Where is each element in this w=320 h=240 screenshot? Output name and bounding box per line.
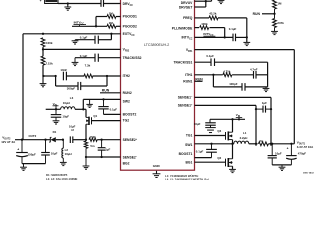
wire PGOOD1 left [96,16,107,18]
svg-text:470µF: 470µF [298,152,306,156]
label 10uF (VOUT2) [51,151,58,155]
label 3.3V AT 10A [297,145,314,149]
node junction VOUT2 rail [21,139,23,141]
resistor 5m (sense, vertical) [84,140,87,157]
svg-text:1M: 1M [277,1,282,5]
node junction boost cap top [102,98,104,100]
wire BG1 to gate [195,161,226,163]
svg-text:SENSE1−: SENSE1− [178,96,193,100]
svg-text:1M: 1M [109,11,114,15]
svg-text:3.3V AT 10A: 3.3V AT 10A [297,145,314,149]
label 7.15k [46,61,54,65]
inductor L2 (vertical) [62,140,63,158]
svg-text:L4, L5: 74438999012 WÜRTH (2x): L4, L5: 74438999012 WÜRTH (2x) [165,176,209,180]
wire Q1 drain [85,109,87,117]
wire D1 to L2 node [56,139,63,141]
pin label DRVSET [179,6,193,10]
svg-text:L2, L3: XAL1010-103ME: L2, L3: XAL1010-103ME [46,177,78,180]
label 150uF [28,152,36,156]
pin label FREQ [183,16,193,20]
resistor 100k (VFB2 top) [41,38,45,47]
node junction sense- tap [270,143,272,145]
label 1M (RUN) [277,1,282,5]
ground 5m foot [83,166,90,169]
wire 5m foot to ground [85,157,87,166]
svg-text:12V AT 3A: 12V AT 3A [1,140,16,144]
capacitor 0.1uF (BOOST1) [206,144,217,158]
label L1 value [240,136,248,140]
ground VOUT1 caps [279,165,286,171]
pin label DRVCC [123,2,134,7]
pin label RUN1 [183,79,192,83]
label D1 [53,130,57,134]
wire SW2 row [83,98,120,100]
pin label SENSE2- [123,155,138,159]
pin label ITH2 [123,74,130,78]
resistor 150k (SENSE2 filter) [89,138,97,141]
wire 150uF to ground row [21,157,23,164]
capacitor 10nF (ITH2 series) [63,72,66,81]
node junction SW node [231,143,233,145]
wire VIN row left segment [46,108,86,110]
pin label SENSE2+ [123,138,138,142]
svg-text:2m: 2m [259,139,264,143]
capacitor 1uF (SENSE2 filter) [98,140,106,157]
net label INTVCC (right) [203,32,215,37]
pin label VFB1 [186,48,193,53]
wire TRACK/SS2 [98,57,120,59]
svg-text:ITH2: ITH2 [123,74,130,78]
node junction INTVCC rail [95,25,97,27]
capacitor 1uF (sense filter) [256,106,271,113]
node junction ITH2 pin side [106,75,108,77]
wire SW1 row [195,143,234,145]
svg-text:Q3: Q3 [217,129,221,133]
capacitor 10uF (VOUT1) [268,144,277,158]
diode D1 (schottky) [49,137,56,142]
label 43.2k [209,12,217,16]
resistor 7.15k (VFB2 bottom) [41,56,45,65]
svg-text:2.2µH: 2.2µH [240,136,248,140]
svg-text:RUN: RUN [253,12,261,16]
svg-text:×2: ×2 [71,128,75,132]
wire EXTVCC cap drop [98,34,111,40]
pin label DRVUV [181,1,193,5]
svg-text:+: + [287,147,289,151]
svg-text:PLLIN/MODE: PLLIN/MODE [172,26,193,30]
ground VIN cap right [205,125,216,132]
node junction sense+ tap [255,143,257,145]
net label RUN (right divider) [253,12,275,16]
svg-text:1µF: 1µF [105,148,110,152]
wire VOUT2 feedback rail (left) [22,34,24,140]
svg-text:10µH: 10µH [65,152,72,156]
resistor 4.75k (ITH1) [223,73,232,77]
node junction 5m top [85,139,87,141]
svg-text:RUN2: RUN2 [123,91,132,95]
resistor 2m (sense) [258,142,268,146]
wire ITH2 row [43,75,120,77]
wire FREQ row [195,17,247,19]
plus sign 150uF [17,147,19,151]
label coupling cap x2 [71,128,75,132]
label 100pF [229,82,238,86]
wire Q2 source [232,166,234,169]
wire PLLIN to INTVCC rail [224,28,226,38]
resistor 43.2k (FREQ) [209,16,218,20]
svg-text:10µF: 10µF [62,115,69,119]
label 0.1uF (INTVCC) [229,27,237,31]
label 470uF [298,152,306,156]
inductor L3 [61,107,75,110]
inductor L1 [234,141,249,144]
svg-text:43.2k: 43.2k [209,12,217,16]
wire SENSE1+ row [195,105,257,145]
pin label SW1 [185,143,192,147]
pin label SENSE1- [178,96,193,100]
svg-text:TG2: TG2 [123,119,130,123]
pin label PLLIN/MODE [172,26,193,30]
resistor 7.3k (ITH2) [84,74,93,78]
wire TRACK/SS1 [195,61,268,63]
label 10nF [60,68,67,72]
pin label BG1 [186,161,193,165]
svg-text:FREQ: FREQ [183,16,193,20]
wire TRACK/SS2 cap to ground [75,57,95,59]
wire SENSE1- row [195,97,272,145]
node junction RUN divider [273,13,275,15]
capacitor 10uF (VIN bypass left) [51,109,62,117]
plus sign 470uF [287,147,289,151]
svg-text:1µF: 1µF [262,101,267,105]
label 0.1uF (TRACK/SS1) [206,54,214,58]
resistor 1M (PGOOD1 pull-up) [107,15,116,19]
pin label PGOOD2 [123,25,137,29]
capacitor 150uF (VOUT2 bulk) [16,140,28,157]
label 0.1uF (BOOST2) [110,108,118,112]
wire FREQ rail down [246,18,248,43]
wire EXTVCC cap to ground [76,39,95,41]
label 4.7nF [250,68,258,72]
note figure number [303,171,314,174]
capacitor 10uF (VIN right) [205,119,216,125]
node junction sense filter right [270,108,272,110]
wire ITH1 row [195,74,268,76]
label 1uF (sense) [262,101,267,105]
node junction VFB2 [42,48,44,50]
svg-text:TG1: TG1 [186,134,193,138]
pin label TG1 [186,134,193,138]
node junction SENSE2- left [85,156,87,158]
svg-text:0.1µF: 0.1µF [196,149,204,153]
pin label PGOOD1 [123,15,137,19]
wire DRVUV/DRVSET tie [195,0,212,7]
svg-text:100k: 100k [201,22,208,26]
svg-text:Q1: Q1 [93,114,97,118]
label Q2 [217,156,221,160]
ground at IC GND pin [153,171,161,178]
resistor 1M (RUN top) [273,0,277,14]
label Q3 [217,129,221,133]
capacitor 10uF (VOUT2 ceramic) [41,140,50,155]
label 100k [46,41,53,45]
pin label TG2 [123,119,130,123]
node junction 470uF out [290,143,292,145]
svg-text:DRVSET: DRVSET [179,6,193,10]
svg-text:L1: L1 [243,131,247,135]
svg-text:RUN: RUN [102,89,110,93]
wire L1 to 2m [249,143,258,145]
svg-text:3890 TA02: 3890 TA02 [303,171,314,174]
ground L2 [60,162,67,165]
node junction EXTVCC cap tap [110,33,112,35]
pin label SENSE1+ [178,104,193,108]
capacitor 0.1uF (TRACK/SS1) [211,58,215,66]
svg-text:100k: 100k [46,41,53,45]
capacitor 10uF x2 (coupling) [70,136,73,143]
node junction 10uF top [44,139,46,141]
wire DRVCC [58,3,121,5]
node junction 1uF top [100,139,102,141]
wire PLLIN/MODE row [195,27,225,29]
label 1uF (SENSE2) [105,148,110,152]
node junction on DRVCC wire [67,2,69,4]
wire VIN row right [210,118,245,120]
wire TG1 to gate [195,135,226,137]
node junction PLLIN/INTVCC [224,36,226,38]
ground on DRVCC wire [64,4,71,11]
svg-text:RUN1: RUN1 [183,79,192,83]
label L2 [65,148,69,152]
svg-text:ITH1: ITH1 [185,73,192,77]
svg-text:100pF: 100pF [229,82,238,86]
wire RUN2 stub [100,92,121,94]
net label VIN (left) [53,102,59,107]
label 1M (second) [109,21,114,25]
label 300pF [67,86,76,90]
node junction L2 top [62,139,64,141]
wire boost cap lower stub [103,109,105,115]
label 1M [109,11,114,15]
svg-text:5m: 5m [90,144,95,148]
plus sign at top-left box [40,0,42,3]
svg-text:150µF: 150µF [28,152,36,156]
label 0.1uF (TRACK/SS2) [80,54,88,58]
node junction ITH2 loop left [54,75,56,77]
svg-text:10µF: 10µF [275,152,282,156]
ground EXTVCC cap [72,40,79,44]
capacitor 0.1uF (INTVCC) [233,34,236,42]
wire SENSE2- row [86,156,121,158]
op-amp-style IC body LTC3890EUH-2 (controller) [121,0,195,170]
wire VOUT2 ground row [22,163,46,165]
svg-text:L3: L3 [70,96,74,100]
svg-text:SW2: SW2 [123,100,130,104]
capacitor 0.1uF (TRACK/SS2) [95,54,98,62]
wire PGOOD2 to pin [116,25,121,27]
svg-text:D1: D1 [53,130,57,134]
wire 150k to SENSE2+ pin [97,139,120,141]
svg-text:+: + [40,0,42,3]
wire TG2 to gate [92,120,121,122]
label Q1 [93,114,97,118]
label L3 value [63,101,70,105]
wire L2 to ground [62,158,64,162]
node junction ITH1 [212,74,214,76]
label 0.1uF (BOOST1) [196,149,204,153]
label 2m [259,139,264,143]
node junction ITH2/divider foot [42,75,44,77]
node junction INTVCC rail [246,36,248,38]
svg-text:DRVUV: DRVUV [181,1,193,5]
label 12V AT 3A [1,140,16,144]
svg-text:0.1µF: 0.1µF [110,108,118,112]
pin label SW2 [123,100,130,104]
ground on SW2 row [86,99,92,107]
capacitor 100pF (ITH1) [242,83,245,91]
node junction 10uF out [271,143,273,145]
wire Q3 drain [232,119,234,132]
svg-text:4.7nF: 4.7nF [250,68,258,72]
svg-text:BG2: BG2 [123,161,130,165]
wire Q2 drain [232,144,234,159]
svg-text:BOOST2: BOOST2 [123,113,137,117]
svg-text:+: + [17,147,19,151]
pin label TRACK/SS1 [173,61,192,65]
svg-text:10nF: 10nF [60,68,67,72]
transistor Q1 (top FET, channel 2) [86,117,92,125]
label coupling cap value [69,125,76,129]
capacitor 300pF (ITH2) [78,82,81,90]
ground ITH1/SS1 rail [263,87,270,92]
wire PGOOD2/INTVCC rail [72,25,107,27]
wire Q1 source [85,124,87,140]
node junction boost1 tap [210,143,212,145]
svg-text:LTC3890EUH-2: LTC3890EUH-2 [144,43,169,47]
label 100k (PLLIN) [201,22,208,26]
label 5m [90,144,95,148]
label 0.1uF (EXTVCC) [80,36,88,40]
ground TRACK/SS2 cap [72,58,79,66]
svg-text:0.1µF: 0.1µF [229,27,237,31]
wire coupling cap to 5m node [73,139,86,141]
node junction Q3 drain [231,118,233,120]
wire 100pF loop [213,75,267,87]
svg-text:10µF: 10µF [51,151,58,155]
label 10uF (VIN) [62,115,69,119]
wire SW2 to VIN rail [82,99,84,109]
svg-text:150k: 150k [90,135,97,139]
wire Q3 source [232,140,234,144]
wire 300pF loop [56,76,107,86]
pin label VFB2 [123,48,130,53]
svg-text:SENSE2−: SENSE2− [123,155,138,159]
wire RUN1 stub [195,80,203,82]
wire INTVCC row [195,36,247,38]
ground Q2 source [229,169,236,172]
ground RUN divider [271,28,278,35]
pin GND label (bottom edge) [153,164,161,168]
net label RUN (right pin) [195,77,203,81]
label 150k [90,135,97,139]
svg-text:PGOOD1: PGOOD1 [123,15,137,19]
svg-text:237k: 237k [277,21,284,25]
ground INTVCC cap (top, cut) [218,0,225,4]
label 4.75k [223,69,231,73]
net label RUN (left) [102,89,110,93]
wire output caps ground row [272,158,291,165]
label L2 value [65,152,72,156]
wire BOOST1 row [195,157,212,159]
note L1 part [165,173,198,178]
IC part number label [144,43,169,47]
svg-text:GND: GND [153,164,161,168]
svg-text:Q2: Q2 [217,156,221,160]
wire divider mid [43,47,121,56]
net label VOUT2 [2,136,11,141]
resistor 237k (RUN bottom) [273,14,277,28]
pin label TRACK/SS2 [123,56,142,60]
svg-text:SW1: SW1 [185,143,192,147]
wire 10uF to ground row [45,155,47,164]
label L3 [70,96,74,100]
label L1 [243,131,247,135]
node junction VIN cap [55,108,57,110]
wire EXTVCC row [23,33,121,35]
pin label INTVCC [181,36,192,41]
label 237k [277,21,284,25]
wire SS1 termination rail [267,62,269,87]
wire VIN label stub [55,106,57,110]
svg-text:4.75k: 4.75k [223,69,231,73]
pin label ITH1 [185,73,192,77]
wire VOUT2 row [15,139,50,141]
svg-text:1M: 1M [109,21,114,25]
svg-text:BOOST1: BOOST1 [179,152,193,156]
note L1 second line [165,176,209,181]
pin label EXTVCC [123,32,135,37]
ground VIN cap [53,117,60,124]
transistor Q2 (bottom FET, channel1) [226,158,233,167]
wire BOOST2 row [104,113,121,115]
node junction divider top [42,33,44,35]
label 10uF (VIN right) [194,122,201,126]
pin label BOOST1 [179,152,193,156]
capacitor on DRVCC wire [101,0,104,7]
ground divider foot [40,76,47,87]
svg-text:SENSE2+: SENSE2+ [123,138,138,142]
svg-text:TRACK/SS1: TRACK/SS1 [173,61,192,65]
wire PGOOD1 branch vertical [95,17,97,27]
svg-text:7.3k: 7.3k [85,64,91,68]
wire 2m to VOUT1 [268,143,294,145]
capacitor 4.7nF (ITH1) [254,71,257,79]
svg-text:BG1: BG1 [186,161,193,165]
svg-text:0.1µF: 0.1µF [206,54,214,58]
transistor Q3 (top FET, channel1) [226,131,233,140]
wire PGOOD1 to pin [116,16,121,18]
net label VOUT1 [297,140,306,145]
note D1 second line [46,177,78,181]
wire VFB1 row and rail [195,50,295,144]
svg-text:OUT2: OUT2 [29,134,37,138]
wire INTVCC stub [79,25,81,27]
pin label BOOST2 [123,113,137,117]
capacitor 0.1uF (BOOST2) [98,107,108,109]
ground VOUT2 caps [20,164,27,171]
wire divider bottom [42,65,44,76]
svg-text:TRACK/SS2: TRACK/SS2 [123,56,142,60]
